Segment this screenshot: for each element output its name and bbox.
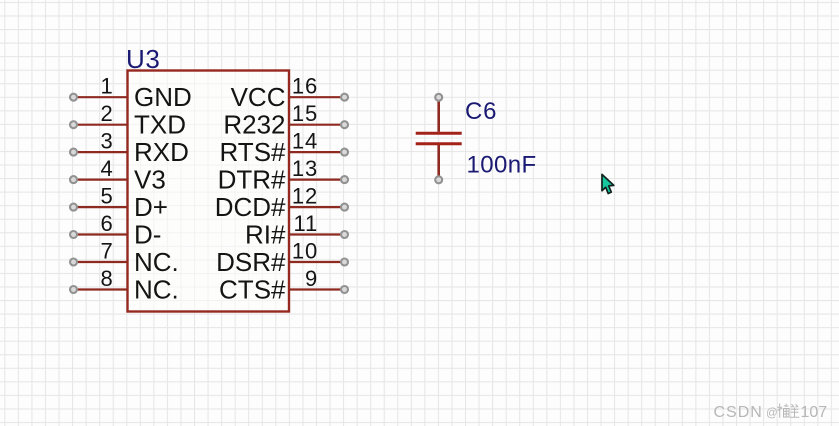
pin 8 terminal dot: [70, 286, 77, 293]
svg-text:VCC: VCC: [231, 82, 286, 112]
wire top terminal to top plate: [437, 97, 440, 132]
pin 7 NC.: [70, 239, 179, 277]
pin 15 terminal dot: [341, 121, 348, 128]
pin 4 wire: [74, 179, 128, 181]
svg-text:TXD: TXD: [134, 110, 186, 140]
pin 13 DTR#: [218, 156, 348, 194]
svg-text:3: 3: [100, 129, 113, 154]
pin 9 wire: [289, 288, 345, 290]
svg-text:DCD#: DCD#: [215, 192, 286, 222]
pin 7 terminal dot: [70, 259, 77, 266]
svg-text:CTS#: CTS#: [219, 274, 286, 304]
pin 3 RXD: [70, 129, 189, 167]
pin 1 terminal dot: [70, 94, 77, 101]
svg-text:5: 5: [100, 184, 113, 209]
pin 6 terminal dot: [70, 231, 77, 238]
svg-text:1: 1: [100, 74, 113, 99]
pin 15 wire: [289, 124, 345, 126]
pin 10 wire: [289, 261, 345, 263]
pin 1 GND: [70, 74, 192, 112]
pin 14 wire: [289, 151, 345, 153]
pin 13 wire: [289, 179, 345, 181]
C6 top plate: [416, 132, 462, 135]
pin 2 wire: [74, 124, 128, 126]
pin 3 terminal dot: [70, 149, 77, 156]
pin 10 terminal dot: [341, 259, 348, 266]
pin 7 wire: [74, 261, 128, 263]
svg-text:14: 14: [292, 129, 318, 154]
pin 5 D+: [70, 184, 168, 222]
reference designator C6: [465, 98, 497, 125]
svg-text:12: 12: [292, 184, 318, 209]
pin 12 wire: [289, 206, 345, 208]
svg-text:16: 16: [292, 74, 318, 99]
C6 top terminal dot: [435, 94, 442, 101]
svg-text:9: 9: [305, 266, 318, 291]
pin 8 NC.: [70, 266, 179, 304]
svg-text:2: 2: [100, 101, 113, 126]
pin 12 DCD#: [215, 184, 348, 222]
svg-text:C6: C6: [465, 98, 497, 125]
value label 100nF: [467, 152, 537, 179]
svg-text:NC.: NC.: [134, 274, 179, 304]
svg-text:V3: V3: [134, 164, 166, 194]
pin 14 terminal dot: [341, 149, 348, 156]
pin 11 terminal dot: [341, 231, 348, 238]
watermark CSDN @nansheng107: [714, 404, 828, 422]
pin 11 RI#: [245, 211, 348, 249]
pin 11 wire: [289, 233, 345, 235]
svg-text:11: 11: [294, 211, 318, 236]
pin 2 terminal dot: [70, 121, 77, 128]
svg-text:R232: R232: [223, 110, 285, 140]
pin 4 V3: [70, 156, 166, 194]
C6 bottom terminal dot: [435, 176, 442, 183]
svg-text:GND: GND: [134, 82, 192, 112]
pin 9 terminal dot: [341, 286, 348, 293]
pin 13 terminal dot: [341, 176, 348, 183]
svg-text:CSDN: CSDN: [714, 404, 763, 421]
svg-text:DTR#: DTR#: [218, 164, 286, 194]
pin 5 terminal dot: [70, 204, 77, 211]
svg-text:@: @: [766, 408, 778, 420]
pin 16 VCC: [231, 74, 348, 112]
svg-text:D+: D+: [134, 192, 168, 222]
mouse cursor: [602, 174, 614, 193]
pin 1 wire: [74, 96, 128, 98]
svg-text:U3: U3: [126, 44, 160, 74]
pin 4 terminal dot: [70, 176, 77, 183]
pin 10 DSR#: [216, 239, 348, 277]
capacitor C6: [416, 94, 462, 184]
reference designator U3: [126, 44, 160, 74]
svg-text:RTS#: RTS#: [220, 137, 287, 167]
svg-text:107: 107: [801, 404, 828, 421]
pin 9 CTS#: [219, 266, 348, 304]
svg-text:15: 15: [292, 101, 318, 126]
svg-text:4: 4: [100, 156, 113, 181]
pin 2 TXD: [70, 101, 186, 139]
C6 bottom plate: [416, 142, 462, 145]
svg-text:6: 6: [100, 211, 113, 236]
svg-text:100nF: 100nF: [467, 152, 537, 179]
pin 3 wire: [74, 151, 128, 153]
pin 6 wire: [74, 233, 128, 235]
pin 16 wire: [289, 96, 345, 98]
pin 5 wire: [74, 206, 128, 208]
svg-text:NC.: NC.: [134, 247, 179, 277]
svg-text:8: 8: [100, 266, 113, 291]
pin 16 terminal dot: [341, 94, 348, 101]
pin 8 wire: [74, 288, 128, 290]
pin 14 RTS#: [220, 129, 349, 167]
svg-text:RI#: RI#: [245, 219, 286, 249]
wire bottom plate to bottom terminal: [437, 145, 440, 180]
svg-text:13: 13: [292, 156, 318, 181]
pin 6 D-: [70, 211, 161, 249]
IC U3 body: [128, 71, 290, 312]
svg-text:RXD: RXD: [134, 137, 189, 167]
svg-text:7: 7: [100, 239, 113, 264]
pin 15 R232: [223, 101, 348, 139]
svg-text:DSR#: DSR#: [216, 247, 286, 277]
svg-text:10: 10: [292, 239, 318, 264]
svg-text:D-: D-: [134, 219, 161, 249]
pin 12 terminal dot: [341, 204, 348, 211]
